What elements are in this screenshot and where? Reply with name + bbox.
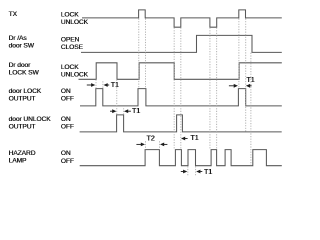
label T1 annotation 3 xyxy=(190,135,198,142)
svg-text:TX: TX xyxy=(9,11,18,18)
label T1 annotation 5 xyxy=(204,169,212,176)
svg-text:T2: T2 xyxy=(146,135,154,142)
svg-text:Dr door: Dr door xyxy=(9,62,31,69)
label door SW state OPEN xyxy=(61,36,80,43)
label Dr /As door SW line1 xyxy=(9,35,28,42)
wire dashed connector LOCK SW rise x96 xyxy=(95,80,97,89)
label T1 annotation 4 xyxy=(246,77,254,84)
svg-text:door LOCK: door LOCK xyxy=(9,88,42,95)
wire dashed connector TX unlock dip1 rise x180.85 xyxy=(180,28,182,150)
svg-text:LOCK: LOCK xyxy=(61,64,79,71)
wire dashed connector TX pulse2 fall x245.75 xyxy=(245,19,247,132)
wire TX waveform trace xyxy=(82,10,282,27)
wire dashed tick hazard pulseA rise x145.6 xyxy=(145,141,147,149)
label TX state LOCK xyxy=(61,11,79,18)
label door LOCK OUTPUT line2 xyxy=(9,96,36,103)
label LOCK OUTPUT state OFF xyxy=(61,96,74,103)
label T1 annotation 1 xyxy=(111,82,119,89)
svg-text:T1: T1 xyxy=(204,169,212,176)
wire HAZARD LAMP waveform trace xyxy=(80,150,282,166)
node T1 annotation 2 arrows (UNLOCK OUTPUT pulse1 width) xyxy=(110,109,131,113)
svg-text:T1: T1 xyxy=(111,82,119,89)
wire dashed connector TX pulse2 rise x238.9 xyxy=(238,19,240,89)
svg-text:ON: ON xyxy=(61,116,71,123)
wire dashed connector TX unlock dip2 fall x209.95 xyxy=(209,28,211,150)
label T2 annotation xyxy=(146,135,154,142)
node T1 annotation 1 arrows (LOCK OUTPUT pulse1 width) xyxy=(87,83,109,87)
wire dashed connector door SW fall x252.4 xyxy=(250,53,252,166)
label HAZARD state OFF xyxy=(61,158,74,165)
label UNLOCK OUTPUT state ON xyxy=(61,116,71,123)
svg-text:UNLOCK: UNLOCK xyxy=(61,72,89,79)
svg-text:T1: T1 xyxy=(132,108,140,115)
wire dashed connector TX pulse1 rise x138.8 xyxy=(138,19,140,89)
label door UNLOCK OUTPUT line1 xyxy=(9,116,52,123)
node T1 annotation 3 arrow (UNLOCK OUTPUT pulse2, points left at dashed line) xyxy=(181,137,188,141)
svg-text:HAZARD: HAZARD xyxy=(9,150,36,157)
wire dashed connector TX unlock dip1 fall x174.15 xyxy=(173,28,175,150)
label LOCK OUTPUT state ON xyxy=(61,88,71,95)
wire dashed connector TX pulse1 fall x145.5 xyxy=(145,19,147,89)
label LOCK SW state UNLOCK xyxy=(61,72,89,79)
wire dashed tick hazard pulseC fall x195.65 xyxy=(195,166,197,176)
label HAZARD LAMP line1 xyxy=(9,150,36,157)
label Dr door LOCK SW line2 xyxy=(9,69,40,76)
svg-text:LOCK SW: LOCK SW xyxy=(9,69,40,76)
wire dashed tick hazard pulseC rise x187.85 xyxy=(187,166,189,176)
label TX xyxy=(9,11,18,18)
wire dashed connector LOCK SW fall x116.8 xyxy=(116,80,118,115)
svg-text:ON: ON xyxy=(61,88,71,95)
wire door LOCK OUTPUT waveform trace xyxy=(80,89,282,106)
label HAZARD LAMP line2 xyxy=(9,158,27,165)
wire dashed tick hazard pulseA fall x159.4 xyxy=(158,141,160,149)
label Dr /As door SW line2 xyxy=(9,43,35,50)
label door UNLOCK OUTPUT line2 xyxy=(9,123,36,130)
label door SW state CLOSE xyxy=(61,44,84,51)
svg-text:door SW: door SW xyxy=(9,43,35,50)
svg-text:door UNLOCK: door UNLOCK xyxy=(9,116,52,123)
svg-text:ON: ON xyxy=(61,150,71,157)
node T1 annotation 5 arrows (HAZARD pulseC width, below lamp trace) xyxy=(181,170,203,174)
node T1 annotation 4 arrows (LOCK SW right, TX pulse2 width) xyxy=(229,84,252,88)
svg-text:T1: T1 xyxy=(246,77,254,84)
svg-text:UNLOCK: UNLOCK xyxy=(61,19,89,26)
svg-text:Dr /As: Dr /As xyxy=(9,35,28,42)
wire dashed connector LOCK OUTPUT pulse1 fall x102.9 xyxy=(102,81,104,88)
wire Dr/As door SW waveform trace xyxy=(81,35,282,52)
svg-text:CLOSE: CLOSE xyxy=(61,44,84,51)
wire dashed connector UNLOCK OUTPUT pulse1 fall x123.7 xyxy=(123,108,125,114)
wire dashed connector TX unlock dip2 rise x216.7 xyxy=(216,28,218,150)
svg-text:OUTPUT: OUTPUT xyxy=(9,96,36,103)
svg-text:LOCK: LOCK xyxy=(61,11,79,18)
wire door UNLOCK OUTPUT waveform trace xyxy=(80,115,282,132)
node T2 annotation arrows (HAZARD pulseA width) xyxy=(136,143,167,147)
label UNLOCK OUTPUT state OFF xyxy=(61,124,74,131)
label LOCK SW state LOCK xyxy=(61,64,79,71)
label door LOCK OUTPUT line1 xyxy=(9,88,42,95)
svg-text:OFF: OFF xyxy=(61,96,74,103)
svg-text:OUTPUT: OUTPUT xyxy=(9,123,36,130)
wire Dr door LOCK SW waveform trace xyxy=(79,63,282,80)
svg-text:LAMP: LAMP xyxy=(9,158,27,165)
svg-text:OPEN: OPEN xyxy=(61,36,80,43)
label Dr door LOCK SW line1 xyxy=(9,62,31,69)
svg-text:OFF: OFF xyxy=(61,158,74,165)
svg-text:OFF: OFF xyxy=(61,124,74,131)
label T1 annotation 2 xyxy=(132,108,140,115)
label HAZARD state ON xyxy=(61,150,71,157)
svg-text:T1: T1 xyxy=(190,135,198,142)
label TX state UNLOCK xyxy=(61,19,89,26)
